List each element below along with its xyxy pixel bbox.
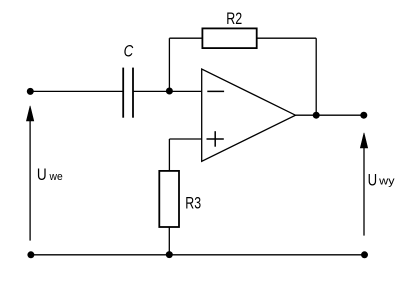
op-amp U1 triangle <box>202 69 296 161</box>
arrow Uwy output voltage <box>360 133 367 236</box>
node feedback/output junction <box>313 112 320 119</box>
node junction at inverting input <box>166 88 173 95</box>
svg-text:wy: wy <box>378 176 395 188</box>
label Uwy <box>368 172 396 190</box>
wire feedback left vertical <box>168 38 170 91</box>
wire non-inverting input down to R3 <box>168 139 170 171</box>
arrow Uwe input voltage <box>26 106 33 241</box>
node input terminal dot <box>27 88 34 95</box>
wire capacitor to junction node <box>133 90 169 92</box>
capacitor C <box>123 68 133 118</box>
node output terminal dot <box>360 112 367 119</box>
svg-text:U: U <box>368 172 378 190</box>
node bottom right dot <box>361 251 368 258</box>
svg-text:R3: R3 <box>185 194 201 212</box>
resistor R3 <box>159 171 179 227</box>
label Uwe <box>37 166 63 184</box>
svg-text:we: we <box>49 171 63 183</box>
op-amp minus sign <box>207 90 224 92</box>
wire input horizontal from input node to capacitor <box>30 90 123 92</box>
wire junction to op-amp inverting input <box>169 90 201 92</box>
svg-text:C: C <box>124 43 134 61</box>
wire feedback top left horizontal <box>169 37 202 39</box>
wire op-amp output to output terminal <box>296 114 364 116</box>
node bottom left dot <box>27 251 34 258</box>
wire non-inverting input horizontal <box>169 138 201 140</box>
resistor R2 <box>202 28 256 48</box>
svg-text:U: U <box>37 166 47 184</box>
wire feedback right vertical <box>315 38 317 115</box>
node bottom junction dot <box>166 251 173 258</box>
op-amp plus sign <box>207 131 224 147</box>
wire R3 bottom to ground rail <box>168 227 170 255</box>
svg-text:R2: R2 <box>226 10 242 28</box>
wire bottom rail <box>31 254 365 256</box>
wire feedback top right horizontal <box>257 37 317 39</box>
